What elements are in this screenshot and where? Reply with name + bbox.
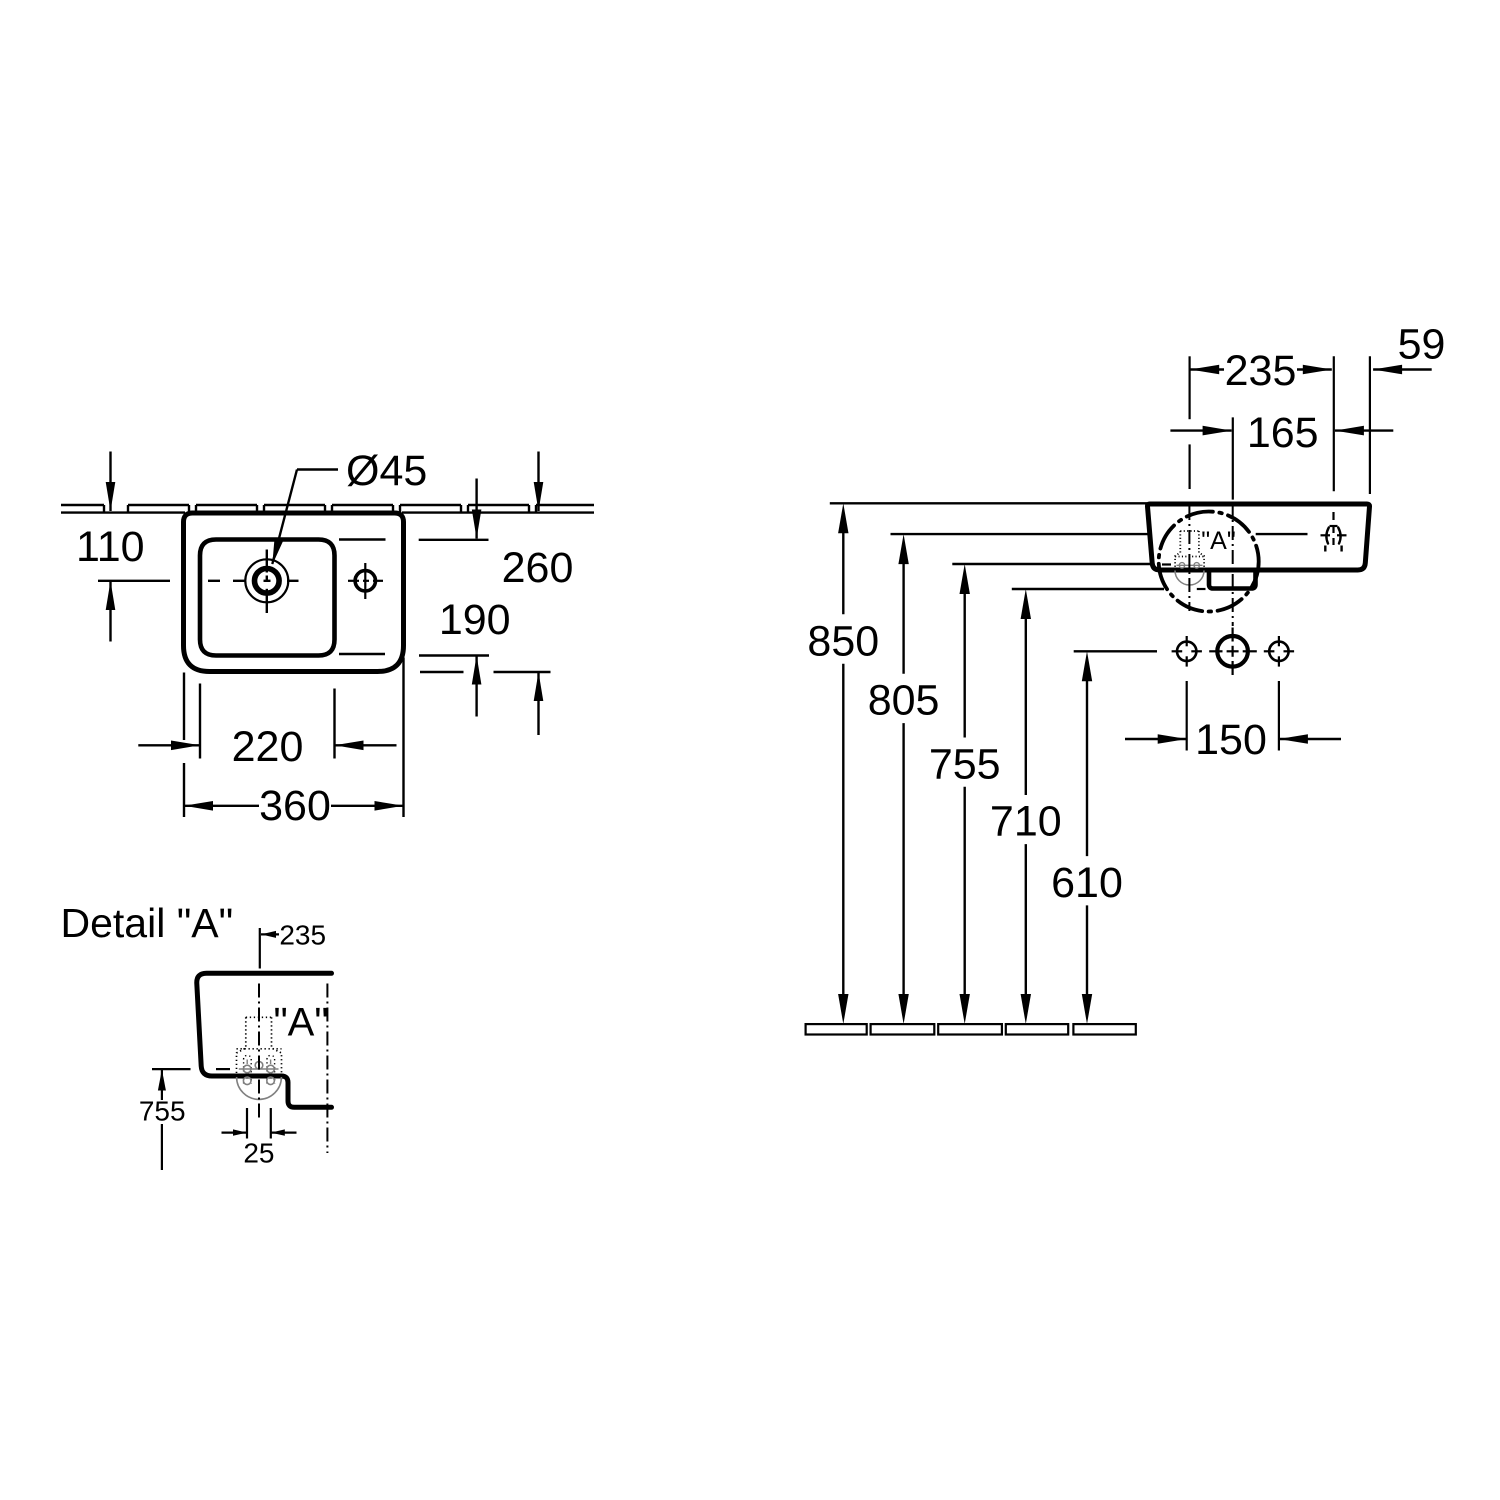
svg-text:190: 190: [439, 596, 511, 644]
svg-text:260: 260: [502, 544, 574, 592]
svg-text:755: 755: [139, 1096, 186, 1127]
svg-text:"A": "A": [273, 1000, 328, 1044]
svg-text:235: 235: [1225, 347, 1297, 395]
svg-text:"A": "A": [1201, 527, 1235, 555]
svg-text:610: 610: [1051, 859, 1123, 907]
svg-text:360: 360: [259, 782, 331, 830]
svg-text:Detail "A": Detail "A": [61, 900, 234, 946]
svg-text:165: 165: [1247, 409, 1319, 457]
svg-text:220: 220: [232, 723, 304, 771]
svg-text:150: 150: [1195, 716, 1267, 764]
svg-text:710: 710: [990, 798, 1062, 846]
svg-text:110: 110: [76, 523, 145, 571]
svg-text:850: 850: [807, 617, 879, 665]
svg-text:235: 235: [279, 920, 326, 951]
svg-text:755: 755: [929, 740, 1001, 788]
svg-text:59: 59: [1398, 321, 1446, 369]
svg-text:Ø45: Ø45: [346, 447, 427, 495]
svg-text:25: 25: [243, 1138, 274, 1169]
svg-text:805: 805: [868, 677, 940, 725]
